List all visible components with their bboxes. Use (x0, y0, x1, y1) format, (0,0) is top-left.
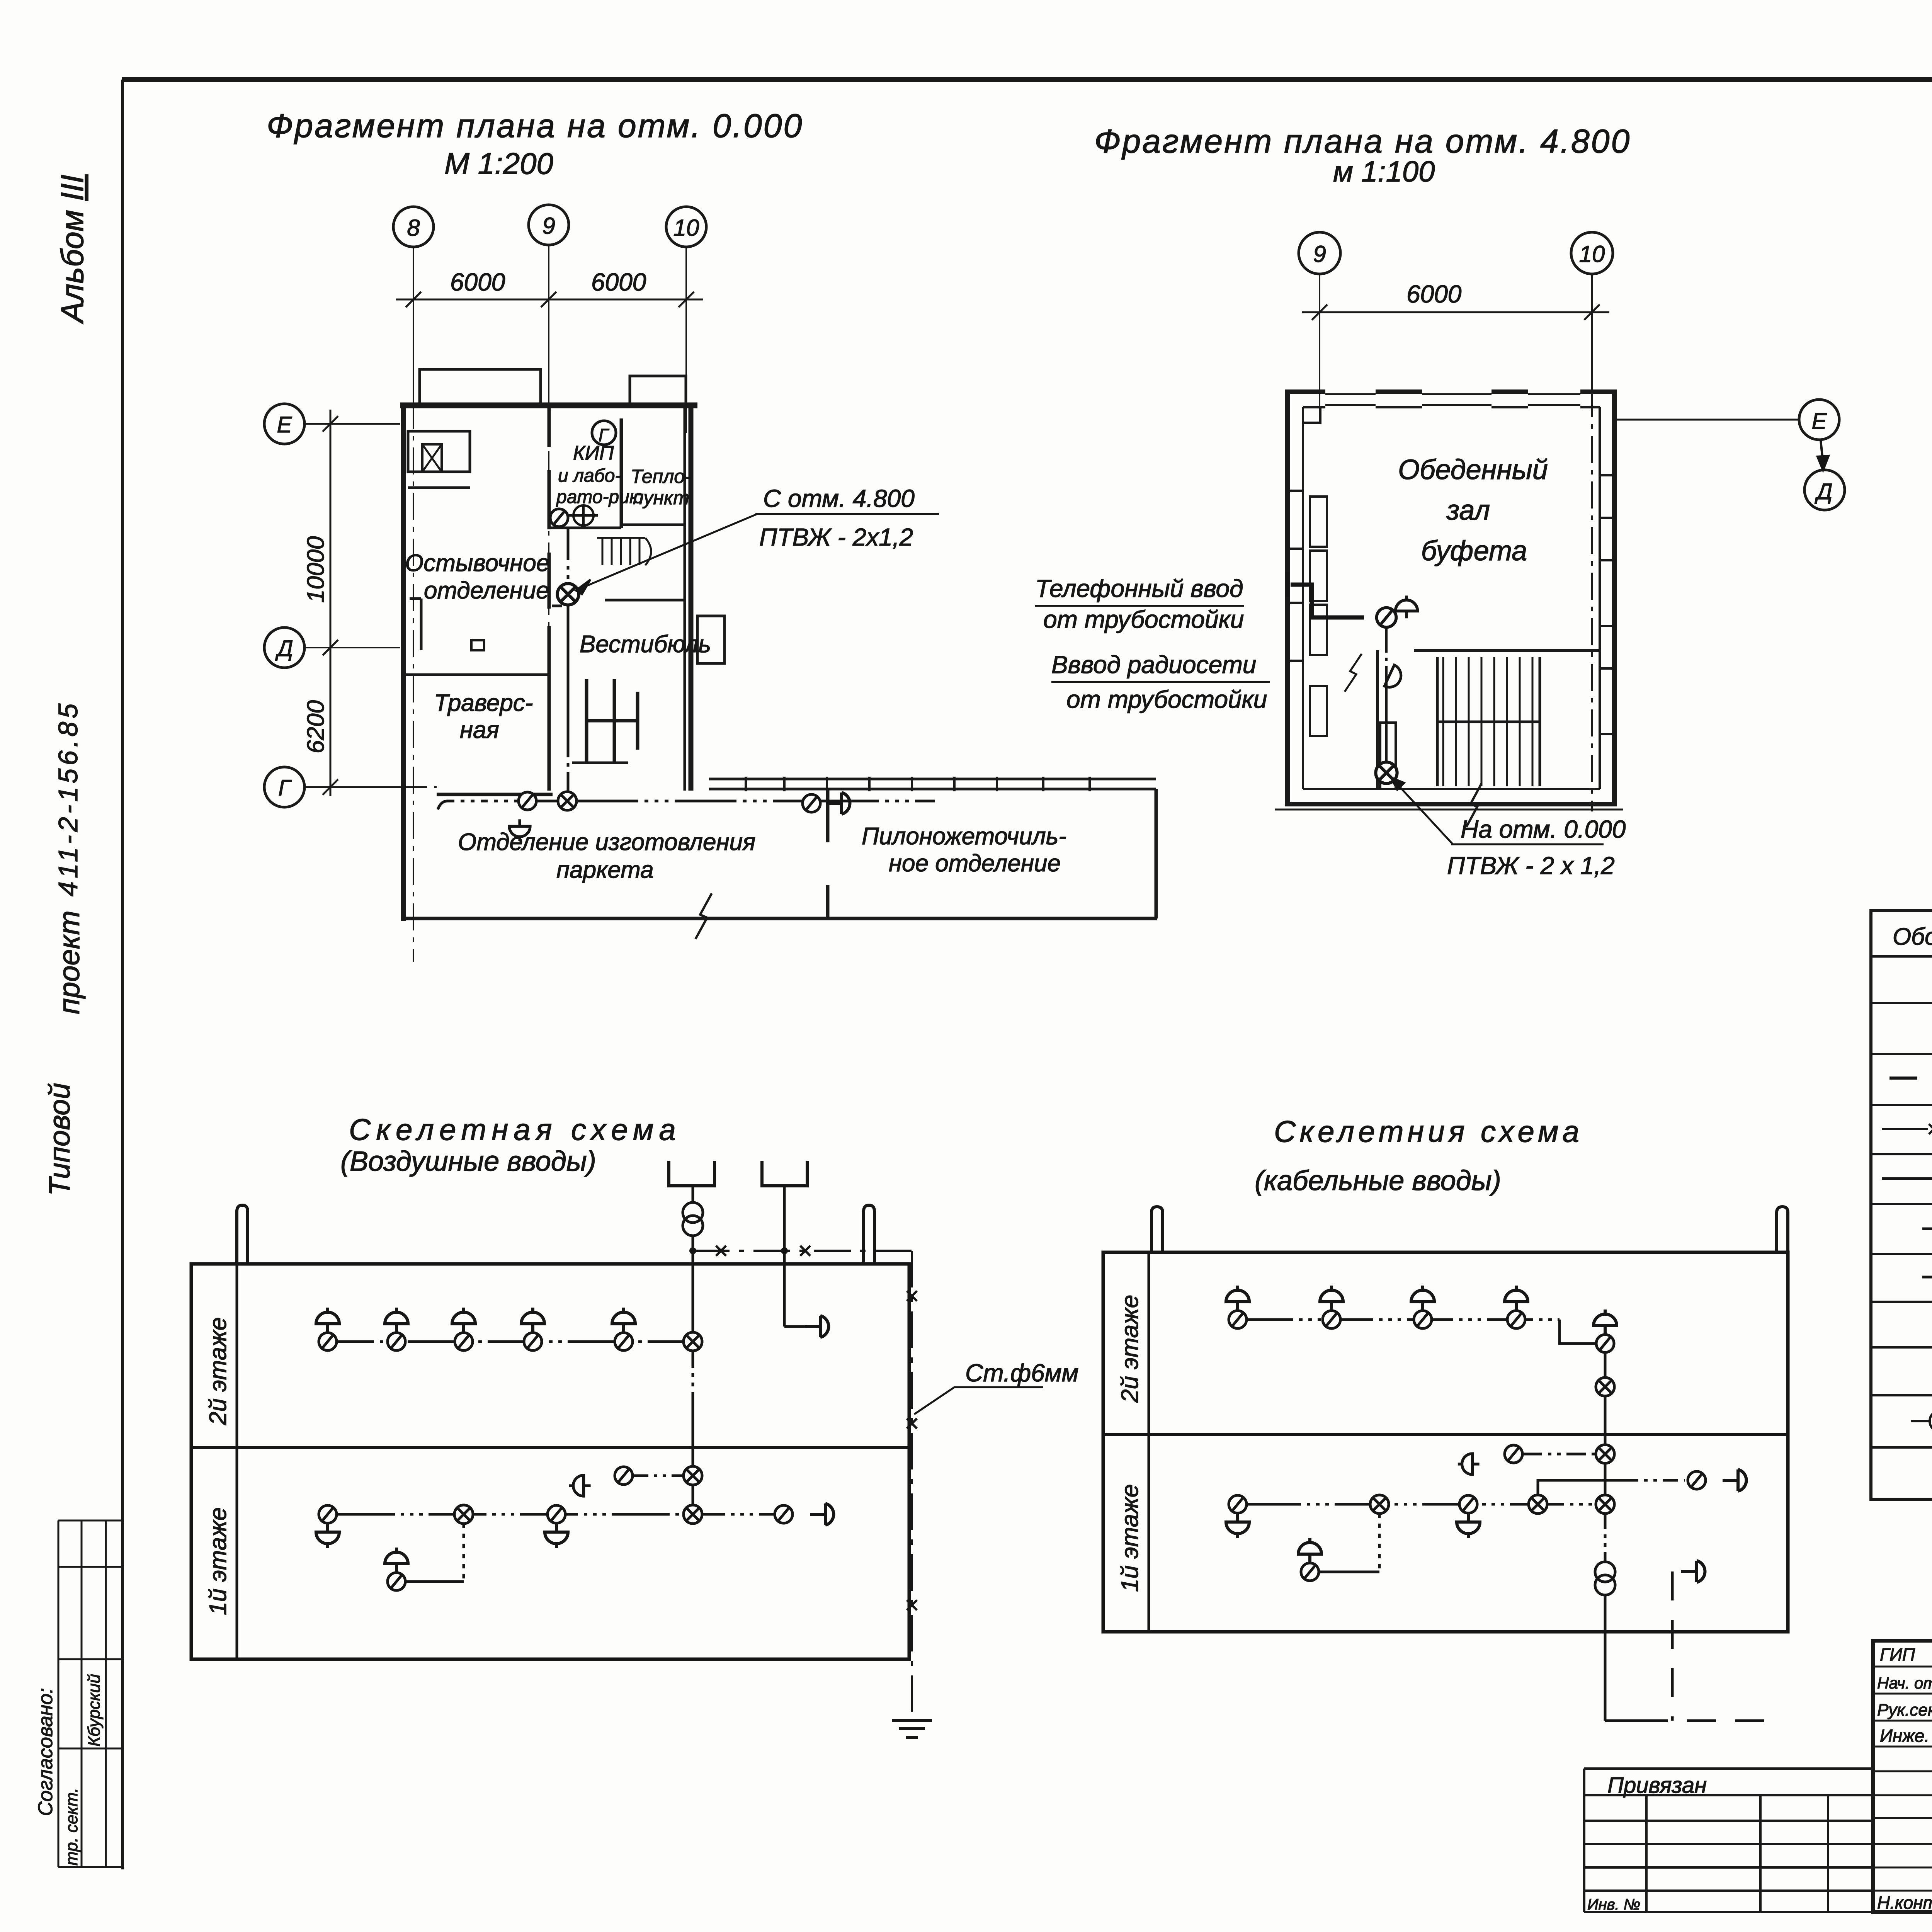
stem from bracket 2 down to D box (783, 1186, 786, 1327)
svg-text:2й этаже: 2й этаже (205, 1317, 231, 1425)
signature table rows (1873, 1666, 1932, 1668)
axis circle 9 (1299, 232, 1613, 274)
radio socket at KIP room (569, 505, 598, 526)
svg-text:Обеденный: Обеденный (1398, 454, 1548, 485)
svg-text:На отм. 0.000: На отм. 0.000 (1461, 815, 1626, 843)
trunk riser (1604, 1352, 1607, 1495)
svg-text:Д: Д (1815, 479, 1833, 504)
radio socket below corridor wire (509, 819, 530, 841)
svg-text:м 1:100: м 1:100 (1333, 155, 1435, 188)
svg-text:(кабельные вводы): (кабельные вводы) (1255, 1165, 1501, 1196)
right branch over trunk (1538, 1480, 1623, 1495)
row 6: branching box UK-2P (1922, 1228, 1932, 1230)
svg-text:Ст.ф6мм: Ст.ф6мм (965, 1359, 1078, 1387)
left wall interior boxes (radiators) (1310, 497, 1327, 547)
interior: elevator shaft (408, 431, 470, 472)
room labels plan 1 (405, 442, 1066, 883)
svg-text:Вввод радиосети: Вввод радиосети (1051, 651, 1256, 679)
row 10: subscriber transformer (1911, 1410, 1932, 1432)
1st floor main wire (337, 1513, 684, 1516)
D box off bracket 2 (784, 1325, 808, 1328)
vertical dimension line with ticks (323, 410, 338, 796)
top wall window gaps (1325, 389, 1376, 410)
zigzag break on radio leader (1345, 654, 1362, 692)
legend table grid (1871, 911, 1932, 1499)
bottom wall of lower wing (403, 917, 1157, 920)
trunk below main line (1604, 1514, 1607, 1561)
arrow from E to D (1818, 440, 1828, 470)
axis E and D circles right of plan 2 (1614, 419, 1799, 421)
stem continues to earth line (692, 1236, 694, 1342)
1st floor main wire (1247, 1503, 1596, 1506)
stairs in vestibule (602, 538, 604, 565)
svg-text:ное отделение: ное отделение (889, 850, 1061, 877)
svg-text:Остывочное: Остывочное (405, 550, 549, 577)
1st floor upper branch (1458, 1454, 1480, 1475)
svg-text:рато-рию: рато-рию (556, 487, 643, 507)
title block outer and grid (1873, 1641, 1932, 1912)
svg-text:Привязан: Привязан (1607, 1773, 1707, 1798)
svg-text:Скелетная схема: Скелетная схема (349, 1112, 681, 1146)
bottom-left approval table (58, 1520, 124, 1867)
building outline scheme 2 (1103, 1207, 1788, 1632)
svg-text:Инже.: Инже. (1880, 1726, 1929, 1746)
dimension line 6000 (1302, 304, 1609, 320)
dimension line 6000+6000 (396, 292, 703, 307)
svg-text:буфета: буфета (1421, 536, 1527, 566)
svg-text:тр. сект.: тр. сект. (62, 1788, 81, 1866)
svg-text:10000: 10000 (303, 536, 329, 603)
svg-text:411-2-156.85: 411-2-156.85 (53, 701, 83, 896)
row 7: limiting box UK-2C (1922, 1276, 1932, 1279)
svg-text:6000: 6000 (1406, 280, 1462, 308)
svg-text:9: 9 (1313, 241, 1326, 267)
antenna bracket 1 (669, 1161, 714, 1186)
axis grid dash-dot lines down through plan (413, 402, 686, 962)
svg-text:8: 8 (407, 215, 420, 241)
2nd floor wire (328, 1340, 684, 1343)
small rect in ostyvochnoe (471, 640, 484, 650)
box UK-2P at bottom (1376, 762, 1397, 783)
axis circles E, D, G (264, 404, 304, 807)
radio socket near entry (1396, 595, 1418, 618)
small partition left of stairs (1376, 650, 1379, 789)
svg-text:Телефонный ввод: Телефонный ввод (1035, 575, 1243, 602)
svg-text:С отм. 4.800: С отм. 4.800 (763, 485, 915, 512)
transformer TAMU on riser (683, 1202, 703, 1236)
right outer wall of tall block (689, 405, 694, 791)
svg-text:Типовой: Типовой (43, 1083, 76, 1196)
svg-text:Альбом III: Альбом III (55, 175, 90, 325)
wire: vertical riser on axis 9 area (567, 527, 570, 792)
mid walls near vestibule (548, 553, 551, 609)
ground symbol (892, 1720, 932, 1737)
svg-text:Нач. отд.: Нач. отд. (1877, 1674, 1932, 1692)
left wall pilasters (420, 599, 423, 650)
break mark on bottom wall (696, 893, 712, 939)
telephone distribution box D right end (826, 793, 850, 814)
svg-text:Е: Е (1812, 409, 1827, 434)
trunk to main line (692, 1485, 694, 1505)
lower wing top wall band with window ticks (709, 778, 1156, 781)
svg-text:и лабо-: и лабо- (558, 466, 621, 486)
box UK-2C at KIP room (550, 509, 568, 527)
svg-text:6000: 6000 (591, 268, 646, 296)
svg-text:1й этаже: 1й этаже (205, 1507, 231, 1615)
svg-text:Е: Е (277, 412, 293, 437)
svg-text:(Воздушные вводы): (Воздушные вводы) (340, 1146, 596, 1177)
left outer wall (401, 403, 406, 921)
svg-text:9: 9 (542, 213, 555, 239)
stairwell (1442, 657, 1444, 786)
2nd floor wire (1247, 1318, 1560, 1321)
axis stems from circles to dimension line (413, 245, 686, 406)
svg-text:Фрагмент плана на отм. 0.000: Фрагмент плана на отм. 0.000 (267, 107, 803, 145)
earth line vertical right side (911, 1251, 913, 1719)
vestibule sanitary core (H shapes) (585, 679, 588, 763)
axis stems (1320, 274, 1592, 390)
svg-text:Вестибюль: Вестибюль (580, 631, 711, 658)
svg-text:Тепло-: Тепло- (631, 466, 691, 487)
svg-text:проект: проект (53, 910, 86, 1014)
window ticks on lower wing (745, 777, 747, 791)
top wall (400, 403, 697, 408)
parapet rectangles above top wall (420, 369, 541, 404)
svg-text:Обозначение: Обозначение (1893, 923, 1932, 950)
svg-text:отделение: отделение (424, 577, 549, 604)
svg-text:от трубостойки: от трубостойки (1066, 685, 1267, 713)
1st floor upper branch (569, 1475, 591, 1496)
row 5: radio wire (1882, 1177, 1932, 1180)
bottom ground line (1275, 809, 1623, 811)
axis circle 8 (393, 205, 706, 247)
KIP room walls (548, 405, 551, 447)
box UK-2C right end (803, 794, 820, 812)
sub branch lower-left (1378, 1514, 1381, 1572)
distribution dome lower (1384, 665, 1405, 691)
antenna bracket 2 (762, 1161, 807, 1186)
earth line horizontal with crosses (693, 1250, 912, 1252)
notch top-left interior (1303, 407, 1320, 423)
right side boxes of vestibule (697, 616, 724, 663)
box UK-2C on corridor wire (519, 792, 536, 810)
building outline: fragment at 0.000 (400, 369, 1157, 939)
svg-text:КИП: КИП (573, 442, 614, 464)
right wall of lower wing (1155, 789, 1158, 918)
break mark bottom (1466, 784, 1481, 827)
svg-text:Пилоножеточиль-: Пилоножеточиль- (862, 823, 1066, 850)
axis E stem (304, 424, 400, 787)
svg-text:Н.контр.: Н.контр. (1877, 1893, 1932, 1913)
svg-text:Д: Д (275, 636, 293, 661)
box UK-2P riser junction (557, 583, 578, 605)
svg-text:Фрагмент плана на отм. 4.8: Фрагмент плана на отм. 4.800 (1094, 123, 1631, 160)
hall/stair dividing wall (1414, 649, 1600, 652)
svg-text:от трубостойки: от трубостойки (1043, 605, 1244, 633)
stem from bracket 1 (692, 1186, 694, 1202)
radio sockets 2nd floor (316, 1308, 339, 1332)
svg-text:Скелетния схема: Скелетния схема (1274, 1114, 1583, 1148)
dining hall labels (1398, 454, 1548, 566)
telephone apparatus G in KIP (592, 421, 616, 445)
svg-text:зал: зал (1446, 495, 1490, 526)
teplo room bottom (621, 524, 685, 526)
traversnaya top wall (403, 673, 548, 676)
svg-text:М 1:200: М 1:200 (444, 146, 553, 180)
box UK-2P on corridor wire (558, 792, 577, 810)
svg-text:ная: ная (460, 717, 499, 743)
svg-text:Траверс-: Траверс- (434, 690, 533, 716)
svg-text:1й этаже: 1й этаже (1117, 1484, 1143, 1592)
svg-text:10: 10 (1579, 241, 1605, 267)
building outline plan 2 (1275, 389, 1623, 827)
building outline scheme 1 (191, 1205, 909, 1659)
svg-text:паркета: паркета (556, 857, 654, 883)
svg-text:Г: Г (278, 776, 292, 801)
svg-text:ПТВЖ - 2 х 1,2: ПТВЖ - 2 х 1,2 (1447, 852, 1615, 879)
svg-text:Инв. №: Инв. № (1587, 1896, 1640, 1913)
svg-text:пункт: пункт (633, 487, 689, 509)
junction box trunk/2nd floor (684, 1332, 702, 1351)
svg-text:6000: 6000 (450, 268, 505, 296)
wire: telephone entry thick step (1287, 572, 1364, 617)
left extension grid (1584, 1769, 1873, 1912)
right wall window marks (1600, 474, 1614, 476)
svg-text:2й этаже: 2й этаже (1117, 1295, 1143, 1403)
svg-text:Рук.сект.: Рук.сект. (1877, 1701, 1932, 1719)
svg-text:ПТВЖ - 2х1,2: ПТВЖ - 2х1,2 (759, 523, 913, 551)
svg-text:Кбурский: Кбурский (85, 1674, 104, 1747)
lower D box with dashed drop (1681, 1561, 1705, 1582)
axis G dash-dot line across lower wing (400, 786, 437, 788)
leader to Na otm 0.000 (1391, 777, 1604, 844)
wire: riser from entry down (1385, 628, 1388, 763)
left margin rotated captions (43, 175, 90, 1196)
svg-text:Отделение изготовления: Отделение изготовления (458, 829, 755, 855)
signature rows text (1877, 1645, 1932, 1913)
svg-text:10: 10 (673, 215, 699, 241)
box UK-2C telephone entry (1377, 608, 1396, 628)
corner socket (1594, 1310, 1617, 1333)
svg-text:ГИП: ГИП (1880, 1645, 1915, 1665)
trunk riser down (692, 1351, 694, 1505)
left wall window marks outside (1287, 490, 1303, 492)
leader: C otm 4.800 (576, 514, 939, 594)
svg-text:Согласовано:: Согласовано: (34, 1688, 57, 1816)
row 4: earthing line (1882, 1128, 1932, 1130)
row 3: telephone cable (dashed) (1889, 1077, 1932, 1080)
wire: radio line along axis G corridor (438, 801, 935, 810)
svg-text:6200: 6200 (303, 700, 329, 753)
sub branch down-left (463, 1524, 465, 1582)
